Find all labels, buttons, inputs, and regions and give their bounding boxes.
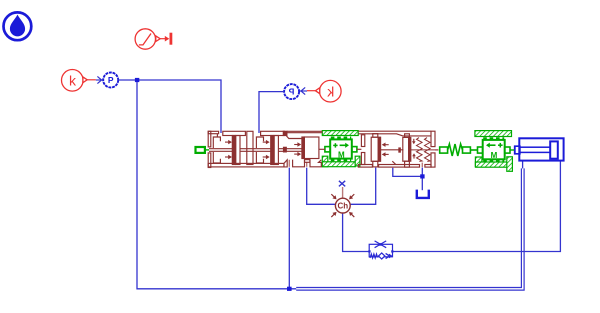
junction bottom bus: [287, 287, 292, 291]
svg-text:Ch: Ch: [337, 202, 348, 211]
ramp signal source: [135, 29, 160, 49]
wall (mass1 cradle): [322, 156, 328, 167]
spool land 3 neck top: [373, 134, 378, 138]
chamber Ch stub: [342, 187, 344, 198]
valve left wall: [208, 131, 211, 147]
wire P1 to valve pilot 1: [118, 80, 221, 133]
junction tank: [420, 174, 424, 178]
flow arrow chamber1 upper: [225, 140, 232, 144]
sleeve bracket lower chamber 2: [256, 152, 263, 163]
pressure converter P1: [103, 73, 118, 88]
check valve with orifice: [368, 241, 393, 259]
sleeve bracket lower chamber 1: [213, 152, 220, 163]
port pedestal: [305, 160, 310, 163]
wire valve port A down to bottom bus: [288, 168, 290, 289]
preload arrow up: [413, 156, 415, 159]
contact teeth mass1 top: [331, 137, 351, 139]
chamber Ch: [330, 193, 356, 219]
wire P2 to valve pilot 2: [259, 92, 284, 133]
wall (mass2 cradle): [475, 157, 482, 166]
sleeve bracket upper chamber 2: [256, 137, 263, 148]
spring chamber rod line: [411, 149, 435, 151]
pressure converter P2 (mirrored): [284, 84, 299, 99]
spool cap 2: [261, 131, 285, 135]
spool link mass1 right: [357, 148, 362, 150]
valve spring 2: [425, 138, 431, 162]
flow arrow chamber4 upper: [382, 143, 389, 147]
valve mid top bar: [287, 131, 322, 132]
sleeve bracket upper chamber 1: [213, 137, 220, 148]
chamber wall after mass1: [361, 135, 364, 147]
port stub B: [306, 162, 308, 167]
rod coupling block: [283, 131, 287, 135]
hydraulic hose (double line): [296, 168, 524, 290]
body rib: [247, 131, 253, 164]
wire chamber Ch down to check valve: [343, 213, 370, 252]
spring piston neck bottom: [405, 161, 410, 167]
flow arrow chamber4 lower: [382, 152, 389, 156]
flow arrow chamber1 lower: [225, 155, 232, 159]
spring piston neck top: [405, 134, 410, 138]
flow arrow chamber3 upper: [294, 142, 301, 146]
spool land 2 sleeve: [274, 136, 278, 165]
cylinder piston-side port wire: [522, 161, 524, 169]
mass2 to rod link: [510, 149, 515, 151]
mass M2: [478, 140, 511, 159]
spool link mass1 left: [319, 148, 325, 150]
spring piston body: [403, 137, 409, 161]
valve spring 1: [417, 138, 423, 162]
wall (mass1 top): [322, 131, 358, 136]
bottom bar end chamfer: [284, 160, 287, 167]
spool land 1 sleeve: [236, 136, 240, 165]
chamber 3 ceiling chamfer: [284, 133, 302, 139]
valve top-left lip: [208, 131, 218, 133]
spool land 3 neck bottom: [373, 161, 378, 167]
signal terminator: [160, 33, 172, 45]
valve right top bar: [358, 131, 431, 136]
spool rod segment 3: [278, 149, 302, 152]
spool land 2 (solid): [271, 136, 274, 165]
pilot piston body: [304, 137, 319, 159]
spool rod segment 1: [209, 149, 232, 152]
port cup B: [293, 160, 305, 167]
spool cap 1: [223, 131, 246, 135]
rod output stub: [435, 149, 438, 151]
signal link k1 to P1: [87, 79, 96, 81]
svg-text:k: k: [69, 73, 77, 89]
wire valve drain to tank: [421, 168, 423, 191]
rod end link: [515, 146, 520, 154]
svg-text:k: k: [326, 83, 334, 99]
gain k2 (mirrored): [315, 80, 341, 102]
plugged port mark: [339, 181, 345, 187]
wire junction down to bottom bus: [137, 82, 296, 289]
flow arrow chamber2 lower: [263, 155, 270, 159]
svg-text:P: P: [108, 75, 114, 85]
wire valve port B to chamber Ch: [307, 168, 336, 205]
flow arrow chamber2 upper: [263, 140, 270, 144]
port piece right: [310, 160, 321, 167]
fluid properties icon: [4, 12, 32, 40]
rod tick: [399, 148, 400, 152]
tank: [417, 190, 429, 198]
gain k1: [62, 70, 88, 92]
flow arrow chamber3 lower: [294, 152, 301, 156]
spool rod segment 2: [240, 149, 271, 152]
rod nub: [284, 147, 287, 152]
spring chamber bottom bar: [379, 165, 420, 168]
svg-text:M: M: [338, 151, 345, 160]
spring piston face (solid): [409, 137, 411, 161]
junction: [135, 78, 139, 82]
mass M1: [325, 139, 357, 158]
preload arrow down: [413, 139, 415, 142]
spool rod segment 4: [381, 149, 404, 151]
signal link k2 to P2: [307, 90, 315, 92]
spool land 3 face (solid): [378, 137, 380, 161]
wire check valve to cylinder rod port: [392, 161, 560, 252]
contact teeth mass2 top: [483, 137, 504, 139]
valve bottom bar left: [208, 163, 284, 167]
spring (valve to mass2): [440, 144, 478, 156]
contact teeth mass1 bottom: [331, 159, 351, 161]
hydraulic cylinder: [515, 138, 564, 160]
pilot piston (solid edge): [302, 137, 305, 159]
svg-text:M: M: [491, 151, 498, 160]
port stub A: [288, 160, 290, 167]
drain port stub: [421, 163, 423, 168]
contact teeth mass2 bottom: [483, 160, 504, 162]
spool land 1 (solid): [232, 136, 235, 165]
wire valve port D elbow: [393, 168, 423, 177]
wall (mass2 top): [475, 131, 512, 137]
svg-text:P: P: [288, 87, 294, 97]
wire chamber Ch to valve port C: [350, 168, 376, 205]
valve right bottom bar: [358, 165, 372, 168]
valve inlet port (green): [196, 147, 205, 153]
spool land 3 body: [371, 137, 378, 161]
valve right wall: [431, 131, 435, 146]
